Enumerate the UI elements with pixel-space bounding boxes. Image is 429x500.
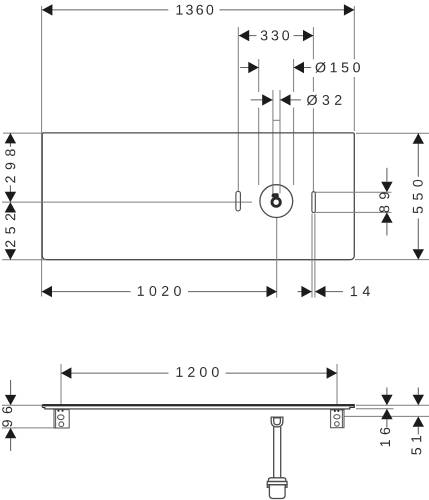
bottle trap cup body <box>269 485 285 499</box>
extension line: diameter-150 left (interrupted at the 32 row) <box>258 59 260 185</box>
dimension 330 (faucet hole to slot) <box>239 30 314 41</box>
extension line: 1200 right (down to slab) <box>336 364 338 405</box>
bottle trap side tabs <box>267 485 287 488</box>
extension line: diameter-150 right (interrupted at the 32 row) <box>293 59 295 185</box>
extension line: 330 left / faucet hole centerline <box>237 27 239 191</box>
dimension diameter 32 (tap hole) <box>251 92 345 109</box>
extension line: 298 top (left of basin) <box>3 132 42 134</box>
console slab (front elevation) <box>42 405 354 409</box>
left wall bracket <box>54 410 69 428</box>
extension line: diameter-32 left (tap hole edge) <box>272 90 274 193</box>
dimension 252 (left, rotated) <box>3 202 18 260</box>
extension line: 1200 left (down to slab) <box>60 364 62 405</box>
extension line: drain centerline below circle <box>276 218 278 298</box>
extension line: slab bottom extended right (for 16) <box>356 408 394 410</box>
extension line: 89 bottom (from slot to right) <box>315 211 391 213</box>
faucet hole capsule <box>236 191 241 211</box>
dimension 51 (slab top to bracket hole, rotated) <box>411 388 424 455</box>
drain waste ring (bold) <box>272 198 280 206</box>
dimension diameter 150 (drain circle) <box>240 59 363 77</box>
extension line: 96 top (slab top, left) <box>2 404 42 406</box>
dimension 1020 (basin left edge to drain center) <box>42 286 277 297</box>
extension line: 1360 right (vertical to basin top-right corner) <box>353 6 355 131</box>
dimension 16 (slab thickness, rotated) <box>380 388 393 447</box>
dimension 1360 (top width) <box>42 4 354 15</box>
tick across the 32mm pipe stub <box>273 119 280 121</box>
bottle trap nut <box>268 478 286 482</box>
extension line: 550 top (right of basin) <box>356 132 429 134</box>
drain circle (diameter 150) <box>260 185 293 218</box>
tap-hole lines inside drain circle <box>273 185 280 193</box>
extension line: bracket hole line (for 51) <box>345 415 429 417</box>
basin outline (plan view rounded rectangle) <box>42 133 354 260</box>
extension line: 96 bottom (bracket bottom, left) <box>2 427 54 429</box>
drain tailpipe <box>274 427 281 478</box>
extension line: 298/252 split line across basin to drain <box>2 201 252 203</box>
extension line: 1360 left / 1020 left (long vertical at basin left) <box>41 6 43 297</box>
extension line: 330 right / slot centerline <box>312 27 314 192</box>
dimension 298 (left, rotated) <box>3 133 18 202</box>
extension line: 550 bottom (right of basin) <box>355 259 429 261</box>
extension line: 252 bottom (left of basin) <box>2 259 47 261</box>
drain fitting below slab (front view) <box>271 417 283 427</box>
dimension 550 (right, rotated) <box>411 133 426 259</box>
dimension 14 (slot width) <box>298 286 370 297</box>
dimension 89 (rotated, right of basin) <box>379 168 392 236</box>
extension line: diameter-32 right (tap hole edge) <box>279 90 281 193</box>
dimension 1200 (bracket spacing) <box>61 367 337 379</box>
extension lines: slot edges down to 14 dimension <box>312 214 315 298</box>
extension line: 89 top (from slot to right) <box>315 191 391 193</box>
drain fitting tab (bold) <box>272 193 279 197</box>
dimension 96 (left, rotated) <box>2 380 16 451</box>
bottle trap flange <box>267 482 287 485</box>
extension line: slab top extended right (for 16/51) <box>356 404 429 406</box>
slot (14mm cutout) on right side <box>312 192 315 213</box>
right wall bracket <box>331 410 344 428</box>
